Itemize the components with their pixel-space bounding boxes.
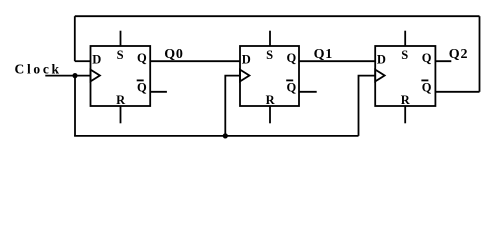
svg-text:Q: Q	[137, 81, 147, 95]
wire U1 Qbar stub	[150, 91, 167, 93]
svg-text:R: R	[401, 93, 411, 107]
flip-flop U1 box	[91, 46, 151, 106]
svg-text:Q: Q	[287, 51, 297, 65]
wire feedback into U1 D	[75, 60, 91, 62]
flip-flop U2 box	[240, 46, 299, 106]
svg-text:Clock: Clock	[15, 61, 62, 76]
wire U3 Qbar feedback horizontal	[435, 91, 479, 93]
wire feedback top run	[75, 15, 480, 17]
U1 Qbar overline	[137, 79, 144, 81]
svg-text:Q: Q	[287, 81, 297, 95]
U3 pin R stub	[404, 106, 406, 123]
svg-text:Q: Q	[137, 51, 147, 65]
U1 clock edge triangle	[91, 70, 100, 82]
svg-text:R: R	[116, 93, 126, 107]
wire FF3 clock riser	[359, 76, 376, 136]
svg-text:R: R	[266, 93, 276, 107]
svg-text:Q2: Q2	[449, 47, 469, 62]
node clock junction dot	[72, 73, 77, 78]
wire bottom clock bus	[74, 135, 358, 137]
U1 pin R stub	[120, 106, 122, 123]
wire clock drop to bus	[74, 76, 76, 136]
U1 pin S stub	[120, 31, 122, 46]
svg-text:D: D	[92, 53, 101, 67]
wire FF2 clock riser	[225, 76, 240, 136]
U3 Qbar overline	[421, 79, 428, 81]
wire feedback left vertical	[74, 16, 76, 61]
U2 pin S stub	[269, 31, 271, 46]
svg-text:S: S	[401, 48, 408, 62]
wire U2 Qbar stub	[299, 91, 317, 93]
svg-text:Q0: Q0	[164, 47, 184, 62]
flip-flop U3 box	[375, 46, 435, 106]
svg-text:S: S	[266, 48, 273, 62]
svg-text:D: D	[242, 53, 251, 67]
wire feedback right vertical	[479, 16, 481, 92]
wire Clock input	[45, 75, 90, 77]
wire Q0 net (U1 Q to U2 D)	[150, 60, 240, 62]
svg-text:D: D	[377, 53, 386, 67]
U2 pin R stub	[269, 106, 271, 123]
wire Q1 net (U2 Q to U3 D)	[299, 60, 375, 62]
U2 Qbar overline	[286, 79, 293, 81]
svg-text:Q: Q	[422, 51, 432, 65]
U3 clock edge triangle	[375, 70, 384, 82]
svg-text:Q1: Q1	[314, 47, 334, 62]
wire Q2 output stub	[435, 60, 451, 62]
U3 pin S stub	[404, 31, 406, 46]
U2 clock edge triangle	[240, 70, 249, 82]
svg-text:S: S	[117, 48, 124, 62]
node bus junction dot	[223, 133, 228, 138]
svg-text:Q: Q	[422, 81, 432, 95]
